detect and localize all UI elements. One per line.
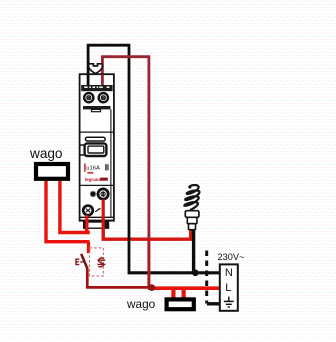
top terminal lower band bbox=[83, 106, 111, 109]
lamp holder middle bbox=[187, 217, 197, 223]
svg-text:u16A: u16A bbox=[86, 166, 100, 172]
curl mark bbox=[95, 209, 100, 212]
terminal screw 2 (top-right) bbox=[99, 93, 108, 102]
contactor/telerupteur module U1 body bbox=[80, 74, 114, 221]
red index tick bbox=[84, 164, 86, 172]
wire: red wago1 strand B to module input bbox=[60, 180, 90, 233]
wire: red bottom bus from junction to 230V box L bbox=[148, 286, 220, 290]
lower section divider bbox=[80, 184, 114, 186]
rocker switch left tab bbox=[80, 145, 85, 155]
tiny red subtext bbox=[87, 172, 93, 174]
svg-text:L: L bbox=[225, 282, 231, 294]
junction: black node at N bus bbox=[192, 270, 199, 277]
module bottom edge lines bbox=[80, 216, 114, 218]
wire: red stub wago2 left bbox=[171, 288, 175, 298]
CFL lamp spiral tube bbox=[184, 185, 199, 210]
mechanical link dashed box bbox=[90, 248, 104, 276]
panel divider line bbox=[80, 131, 114, 133]
230V supply box bbox=[220, 264, 238, 310]
boundary dashed line of panel bbox=[205, 251, 208, 304]
wire: black lamp neutral drop bbox=[192, 230, 195, 275]
earth symbol bbox=[224, 297, 234, 307]
wire: earth stub into 230V box bbox=[207, 302, 220, 305]
module top terminal clamp band bbox=[81, 85, 112, 91]
lamp holder tip bbox=[189, 224, 196, 230]
barcode mark bbox=[105, 164, 106, 170]
svg-text:wago: wago bbox=[126, 297, 156, 311]
lamp holder upper bbox=[185, 211, 199, 218]
wago connector 2 box bbox=[167, 299, 194, 309]
terminal screw 4 (lower-left, output) bbox=[83, 206, 93, 216]
indicator window pill bbox=[85, 137, 105, 141]
wire: red switch feed drop bbox=[87, 242, 90, 254]
wire: red output stub over clip (lower-left terminal) bbox=[85, 215, 88, 234]
junction: red node at L bus bbox=[148, 284, 155, 291]
wire: red switch return to junction bbox=[87, 269, 150, 288]
legrand logo block bbox=[100, 178, 108, 181]
wire: red lamp feed from module output terminal 2 bbox=[103, 198, 191, 239]
module top DIN clip (heart shape) bbox=[89, 64, 103, 74]
wire: switch lower lead bbox=[81, 254, 87, 269]
wire: black neutral bottom horizontal to 230V box N bbox=[128, 271, 220, 274]
wire: dark red phase from module top-right terminal up and right bbox=[102, 57, 148, 239]
svg-text:legrand: legrand bbox=[85, 177, 102, 182]
wire: red lead inside module top bbox=[101, 75, 104, 92]
wire: red wago1 strand A to switch feed bbox=[46, 180, 90, 242]
terminal screw 3 (lower-right, output) bbox=[98, 189, 108, 199]
wire: red L vertical from junction down to bottom bus bbox=[147, 239, 150, 288]
svg-text:N: N bbox=[225, 267, 233, 279]
rocker switch bbox=[85, 143, 107, 156]
relay actuator symbol bbox=[97, 257, 105, 268]
svg-text:wago: wago bbox=[29, 146, 63, 161]
panel inner right edge bbox=[110, 109, 112, 217]
wago connector 1 box bbox=[36, 164, 68, 179]
wire: red stub from module lower-left terminal bbox=[85, 221, 88, 234]
bottom DIN clip bbox=[83, 221, 109, 229]
wire: black lead inside module top bbox=[87, 75, 90, 88]
svg-text:230V~: 230V~ bbox=[218, 252, 245, 262]
wire: red output lead over module (lower-right terminal) bbox=[102, 200, 105, 240]
switch label dash bbox=[80, 261, 83, 263]
small tab under band bbox=[92, 109, 101, 111]
wire: black neutral from module top-left terminal up bbox=[88, 45, 129, 273]
switch label E bbox=[76, 259, 79, 264]
gear icon bbox=[90, 191, 96, 197]
wire: red stub wago2 right bbox=[182, 288, 186, 298]
terminal screw 1 (top-left) bbox=[84, 93, 93, 102]
